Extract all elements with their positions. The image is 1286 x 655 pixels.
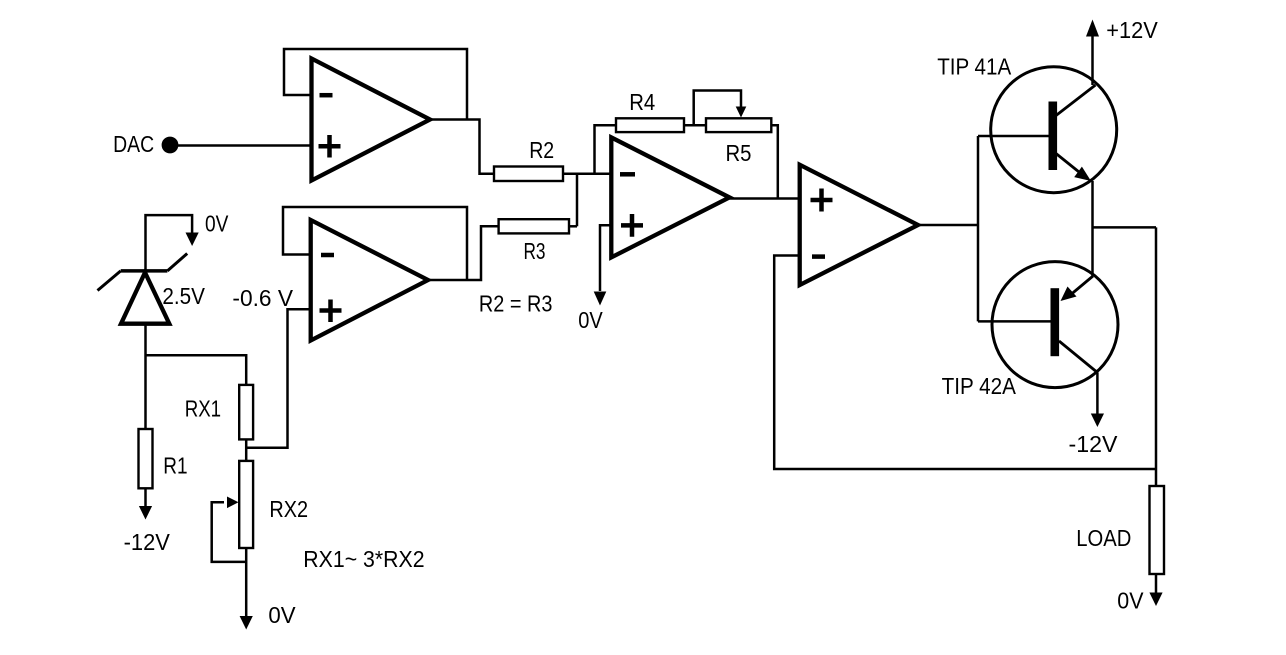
- svg-text:-0.6 V: -0.6 V: [232, 285, 293, 311]
- wire Q2 collector to -12V: [1096, 373, 1099, 415]
- resistor RX1: [239, 385, 253, 440]
- transistor Q1 TIP 41A: [991, 67, 1117, 193]
- resistor RX2: [239, 461, 253, 548]
- +12V arrowhead: [1086, 20, 1099, 37]
- wire Q1 emitter down / Q2 emitter up column: [1091, 181, 1094, 276]
- svg-text:RX1: RX1: [185, 396, 221, 422]
- wire U1 feedback loop: [284, 49, 467, 120]
- wire zener anode down to R1: [144, 324, 147, 429]
- potentiometer R5: [706, 118, 771, 132]
- wire base bus vertical: [977, 136, 980, 321]
- wire R4 left leg: [595, 125, 617, 174]
- 0V arrowhead (RX2): [240, 616, 253, 630]
- svg-text:LOAD: LOAD: [1076, 525, 1131, 551]
- wire U3 output to U4 + input: [730, 197, 800, 200]
- -12V arrowhead: [1091, 414, 1104, 428]
- wire Q1 base: [978, 135, 1049, 138]
- wire R3 right to junction: [569, 225, 577, 228]
- wire R5 right leg to U3 output: [771, 125, 778, 198]
- svg-text:DAC: DAC: [113, 131, 154, 157]
- node DAC terminal dot: [162, 137, 179, 154]
- wire U2 feedback loop: [283, 207, 467, 280]
- svg-text:0V: 0V: [268, 602, 296, 628]
- 0V arrowhead (LOAD): [1149, 593, 1162, 607]
- resistor R2: [494, 167, 563, 182]
- wire RX2 wiper loop: [212, 502, 247, 562]
- wire R5 wiper loop: [694, 91, 741, 126]
- svg-text:TIP 42A: TIP 42A: [942, 373, 1017, 399]
- svg-text:+12V: +12V: [1106, 17, 1158, 43]
- svg-text:0V: 0V: [205, 211, 229, 237]
- wiper arrowhead RX2: [227, 497, 239, 509]
- wire output node down to LOAD: [1155, 227, 1158, 486]
- op-amp U4: [800, 165, 918, 285]
- wire RX2 bottom to 0V: [245, 548, 248, 617]
- svg-text:R2 = R3: R2 = R3: [479, 291, 553, 317]
- 0V arrowhead (zener): [186, 233, 199, 247]
- op-amp U3: [611, 137, 729, 257]
- zener diode D1: [98, 254, 188, 324]
- op-amp U1: [312, 59, 431, 181]
- svg-text:2.5V: 2.5V: [162, 283, 205, 309]
- resistor R3: [499, 219, 569, 233]
- wire R4 to R5 link: [684, 124, 706, 127]
- wire R2/R3 junction leg: [576, 174, 579, 227]
- svg-text:0V: 0V: [1117, 588, 1144, 614]
- svg-text:-12V: -12V: [124, 529, 171, 555]
- wire anode node to RX1: [146, 355, 247, 385]
- wire -0.6V node to U2 + input and down to RX1/RX2 junction: [246, 309, 311, 448]
- wire zener cathode to 0V arrow: [146, 215, 193, 271]
- svg-text:R2: R2: [529, 137, 554, 163]
- wire DAC to U1 + input: [178, 144, 312, 147]
- svg-text:RX1~ 3*RX2: RX1~ 3*RX2: [303, 546, 424, 572]
- wire Q2 base: [978, 320, 1051, 323]
- svg-text:TIP 41A: TIP 41A: [937, 54, 1012, 80]
- wire U2 output to R3: [428, 226, 499, 280]
- svg-text:0V: 0V: [578, 307, 603, 333]
- wire emitter rail to load branch: [1093, 226, 1157, 229]
- wiper arrowhead R5: [736, 107, 747, 118]
- wire U4 output to transistor bases: [918, 224, 978, 227]
- wire U3 + input to 0V ground arrow: [600, 225, 611, 291]
- svg-text:R4: R4: [629, 89, 655, 115]
- svg-text:-12V: -12V: [1069, 431, 1119, 457]
- op-amp U2: [311, 220, 428, 341]
- wire U1 output to R2: [430, 120, 494, 174]
- ground arrowhead U3: [594, 292, 607, 306]
- svg-text:RX2: RX2: [269, 496, 308, 522]
- wire R1 to -12V: [144, 488, 147, 507]
- wire Q1 collector to +12V: [1091, 35, 1094, 85]
- -12V arrowhead (R1): [139, 506, 152, 520]
- svg-text:R5: R5: [726, 140, 752, 166]
- wire LOAD to 0V: [1155, 574, 1158, 593]
- wire R2 to U3 - input: [563, 173, 611, 176]
- resistor LOAD: [1150, 486, 1165, 574]
- resistor R1: [139, 429, 153, 488]
- resistor R4: [616, 118, 684, 132]
- svg-text:R3: R3: [524, 238, 546, 264]
- wire RX1 bottom to RX2: [245, 439, 248, 461]
- transistor Q2 TIP 42A: [992, 262, 1118, 388]
- wire U4 - input feedback to load node: [774, 256, 1156, 470]
- svg-text:R1: R1: [163, 453, 187, 479]
